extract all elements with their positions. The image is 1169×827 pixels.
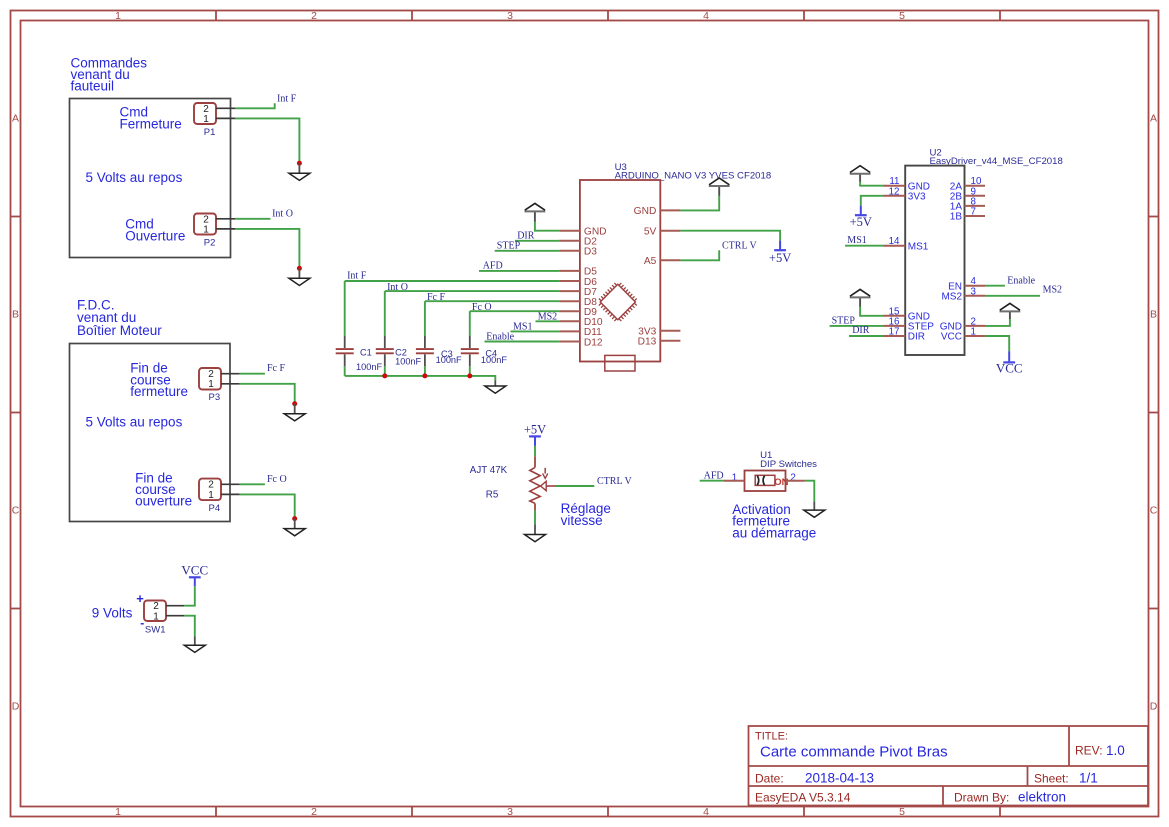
pin D7 U3 left bbox=[559, 287, 597, 298]
svg-text:5: 5 bbox=[899, 10, 905, 22]
pin D11 U3 left bbox=[559, 327, 602, 338]
wire U2 pin 1 VCC to VCC flag bbox=[985, 336, 1009, 351]
svg-text:Sheet:: Sheet: bbox=[1034, 772, 1069, 786]
pin 4 EN U2 right bbox=[948, 276, 985, 292]
svg-text:+: + bbox=[136, 591, 144, 606]
svg-text:A: A bbox=[1150, 113, 1157, 125]
svg-text:MS2: MS2 bbox=[1043, 285, 1062, 296]
wire net DIR to U2 pin 17 bbox=[849, 335, 883, 337]
wire U2 pin 4 EN to net Enable bbox=[985, 285, 1005, 287]
svg-text:elektron: elektron bbox=[1018, 790, 1066, 805]
wire SW1 pin 2 to VCC flag bbox=[184, 586, 195, 606]
U3 USB connector rectangle bbox=[605, 355, 635, 371]
ground R5 bbox=[525, 524, 546, 542]
wire net Fc O from P4 pin 2 bbox=[240, 483, 265, 485]
wire net AFD to U1 pin 1 bbox=[700, 480, 724, 482]
wire net Fc F to U3 D8 bbox=[425, 300, 559, 302]
wire U3 right GND to arrow flag bbox=[680, 196, 719, 211]
svg-text:VCC: VCC bbox=[996, 361, 1023, 376]
wire net MS2 to U3 D10 bbox=[536, 320, 560, 322]
connector P2 bbox=[194, 214, 235, 249]
svg-text:fauteuil: fauteuil bbox=[71, 79, 115, 94]
pin 11 GND U2 left bbox=[884, 176, 931, 192]
pin 8 1A U2 right bbox=[950, 196, 985, 212]
svg-text:CTRL V: CTRL V bbox=[597, 476, 633, 487]
svg-text:3: 3 bbox=[971, 286, 977, 297]
wire net Fc O to U3 D9 bbox=[470, 310, 559, 312]
pin 1 line P2 bbox=[216, 228, 235, 230]
svg-text:Enable: Enable bbox=[1007, 275, 1035, 286]
connector P1 bbox=[194, 103, 235, 138]
annotation block F.D.C. venant du Boitier Moteur bbox=[70, 297, 231, 521]
pin D2 U3 left bbox=[559, 237, 597, 248]
svg-text:D3: D3 bbox=[584, 247, 597, 258]
pin 2 line P1 bbox=[216, 107, 235, 109]
wire C2 bottom to ground bus bbox=[384, 366, 386, 376]
wire U2 pin 3 MS2 to net MS2 bbox=[985, 295, 1040, 297]
svg-text:1: 1 bbox=[208, 490, 214, 501]
svg-text:100nF: 100nF bbox=[395, 357, 421, 367]
svg-text:D13: D13 bbox=[638, 337, 657, 348]
power flag arrow U2 pin 15 bbox=[850, 289, 871, 306]
capacitor C1 bbox=[336, 336, 383, 372]
power flag VCC at U2 bbox=[996, 351, 1023, 375]
svg-text:1B: 1B bbox=[950, 212, 963, 223]
wire ground bus under capacitors bbox=[345, 376, 496, 381]
svg-text:vitesse: vitesse bbox=[561, 513, 603, 528]
svg-text:1: 1 bbox=[115, 10, 121, 22]
wire P2 pin 1 to ground bbox=[235, 229, 299, 268]
wire C3 bottom to ground bus bbox=[424, 366, 426, 376]
svg-text:+5V: +5V bbox=[769, 251, 791, 265]
svg-text:C1: C1 bbox=[360, 348, 372, 358]
wire net Fc F vertical to C3 bbox=[424, 301, 426, 336]
svg-text:Date:: Date: bbox=[755, 772, 784, 786]
svg-text:EasyEDA V5.3.14: EasyEDA V5.3.14 bbox=[755, 791, 851, 805]
pin 1 line U1 bbox=[724, 480, 745, 482]
wire net MS1 to U3 D11 bbox=[511, 330, 560, 332]
wire U3 5V to +5V flag bbox=[680, 231, 780, 241]
wire net Int F to U3 D6 bbox=[345, 280, 560, 282]
pin 17 DIR U2 left bbox=[884, 327, 926, 343]
resistor R5 potentiometer AJT 47K bbox=[470, 456, 555, 510]
svg-text:C: C bbox=[1150, 505, 1158, 517]
title block bbox=[749, 726, 1149, 806]
svg-text:Boîtier Moteur: Boîtier Moteur bbox=[77, 323, 162, 338]
pin D5 U3 left bbox=[559, 267, 597, 278]
svg-text:1: 1 bbox=[208, 379, 214, 390]
svg-text:MS1: MS1 bbox=[847, 235, 866, 246]
svg-text:17: 17 bbox=[889, 327, 900, 338]
svg-text:Fc F: Fc F bbox=[427, 292, 446, 303]
pin 1 line P3 bbox=[221, 383, 240, 385]
power flag +5V at U3 bbox=[769, 241, 791, 265]
svg-text:AJT 47K: AJT 47K bbox=[470, 465, 508, 476]
svg-text:VCC: VCC bbox=[181, 563, 208, 578]
pin 2 line P2 bbox=[216, 218, 235, 220]
svg-text:au démarrage: au démarrage bbox=[732, 525, 816, 540]
svg-text:B: B bbox=[12, 309, 19, 321]
svg-text:GND: GND bbox=[634, 206, 657, 217]
pin 3V3 U3 right bbox=[638, 327, 680, 338]
ground SW1 bbox=[184, 637, 205, 653]
svg-text:Drawn By:: Drawn By: bbox=[954, 791, 1009, 805]
pin D10 U3 left bbox=[559, 317, 603, 328]
U3 chip diamond glyph bbox=[599, 283, 637, 321]
wire U3 left GND to arrow flag bbox=[535, 221, 559, 231]
svg-text:Carte commande Pivot Bras: Carte commande Pivot Bras bbox=[760, 744, 948, 761]
wire P1 pin 1 to ground bbox=[235, 118, 299, 162]
wire U2 pin 2 GND to arrow flag bbox=[985, 319, 1010, 326]
svg-text:B: B bbox=[1150, 309, 1157, 321]
pin D6 U3 left bbox=[559, 277, 597, 288]
svg-text:P1: P1 bbox=[204, 127, 216, 138]
ground P3 bbox=[284, 401, 305, 421]
svg-text:SW1: SW1 bbox=[145, 625, 166, 636]
wire U2 pin 15 GND to arrow flag bbox=[860, 306, 883, 316]
ground P2 bbox=[289, 266, 310, 286]
svg-text:1: 1 bbox=[153, 611, 159, 622]
pin 5V U3 right bbox=[644, 227, 681, 238]
wire U3 A5 to net CTRL V bbox=[680, 250, 719, 260]
svg-text:5 Volts au repos: 5 Volts au repos bbox=[86, 414, 183, 429]
pin 1 line SW1 bbox=[166, 615, 184, 617]
svg-text:TITLE:: TITLE: bbox=[755, 731, 788, 743]
svg-text:-: - bbox=[140, 616, 144, 630]
wire net Fc F from P3 pin 2 bbox=[240, 373, 265, 375]
wire +5V to R5 top bbox=[534, 446, 536, 456]
wire SW1 pin 1 to ground bbox=[184, 616, 195, 637]
svg-text:DIP Switches: DIP Switches bbox=[760, 459, 817, 470]
wire net Enable to U3 D12 bbox=[485, 341, 560, 343]
capacitor C2 bbox=[376, 336, 422, 367]
wire net STEP to U2 pin 16 bbox=[830, 325, 884, 327]
pin D13 U3 right bbox=[638, 337, 681, 348]
svg-text:Fc O: Fc O bbox=[267, 474, 287, 485]
pin 2 line P3 bbox=[221, 373, 240, 375]
pin 1 line P1 bbox=[216, 117, 235, 119]
pin 1 line P4 bbox=[221, 493, 240, 495]
wire net Int F vertical to C1 bbox=[344, 281, 346, 336]
pin 2 GND U2 right bbox=[940, 316, 985, 332]
svg-text:MS1: MS1 bbox=[908, 241, 929, 252]
svg-text:C: C bbox=[12, 505, 20, 517]
pin 16 STEP U2 left bbox=[884, 316, 935, 332]
wire net DIR to U3 D2 bbox=[515, 240, 559, 242]
junction dot C2 bbox=[382, 373, 387, 378]
ground P1 bbox=[289, 161, 310, 181]
svg-text:AFD: AFD bbox=[483, 260, 503, 271]
svg-text:P4: P4 bbox=[209, 503, 221, 514]
pin 2 line U1 bbox=[786, 480, 805, 482]
switch U1 DIP Switches bbox=[724, 450, 818, 491]
pin GND U3 right bbox=[634, 206, 681, 217]
svg-text:Int F: Int F bbox=[277, 94, 297, 105]
wire R5 bottom to ground bbox=[534, 511, 536, 525]
pin A5 U3 right bbox=[644, 256, 681, 267]
svg-text:D: D bbox=[12, 701, 20, 713]
capacitor C4 bbox=[461, 336, 508, 366]
op-amp U2 EasyDriver bbox=[905, 148, 1063, 356]
wire net Int O from P2 pin 2 bbox=[235, 218, 270, 220]
svg-text:P3: P3 bbox=[209, 392, 221, 403]
svg-text:A: A bbox=[12, 113, 19, 125]
op-amp U3 ARDUINO_NANO bbox=[580, 162, 771, 362]
svg-text:Int F: Int F bbox=[347, 270, 367, 281]
svg-text:3: 3 bbox=[507, 10, 513, 22]
annotation Activation fermeture au demarrage bbox=[732, 502, 816, 541]
svg-text:D: D bbox=[1150, 701, 1158, 713]
power flag arrow U2 pin 2 bbox=[1000, 303, 1021, 319]
pin 10 2A U2 right bbox=[950, 176, 985, 192]
svg-text:4: 4 bbox=[703, 10, 709, 22]
svg-text:fermeture: fermeture bbox=[130, 384, 188, 399]
pin GND U3 left bbox=[559, 227, 606, 238]
ground capacitor bus bbox=[485, 381, 506, 394]
wire C4 bottom to ground bus bbox=[469, 366, 471, 376]
svg-text:STEP: STEP bbox=[497, 240, 521, 251]
svg-text:100nF: 100nF bbox=[356, 362, 382, 372]
power flag +5V at U2 bbox=[850, 206, 872, 229]
svg-text:3: 3 bbox=[507, 806, 513, 818]
svg-text:ouverture: ouverture bbox=[135, 494, 192, 509]
wire P4 pin 1 to ground bbox=[240, 494, 295, 518]
svg-text:7: 7 bbox=[971, 207, 976, 218]
ground U1 bbox=[804, 502, 825, 518]
power flag arrow U3 left GND bbox=[525, 203, 546, 221]
pin D3 U3 left bbox=[559, 247, 597, 258]
pin 1 VCC U2 right bbox=[941, 327, 985, 343]
power flag VCC at SW1 bbox=[181, 563, 208, 587]
svg-text:Int O: Int O bbox=[387, 282, 408, 293]
svg-text:+5V: +5V bbox=[524, 423, 546, 437]
svg-text:1.0: 1.0 bbox=[1106, 743, 1125, 758]
svg-text:14: 14 bbox=[889, 236, 900, 247]
svg-text:Enable: Enable bbox=[486, 331, 514, 342]
svg-text:100nF: 100nF bbox=[481, 355, 507, 365]
annotation Reglage vitesse bbox=[561, 501, 611, 528]
wire U1 pin 2 to ground bbox=[805, 481, 814, 502]
svg-text:REV:: REV: bbox=[1075, 744, 1103, 758]
svg-text:100nF: 100nF bbox=[436, 355, 462, 365]
svg-text:9 Volts: 9 Volts bbox=[92, 606, 133, 621]
power flag arrow U3 right GND bbox=[709, 178, 730, 196]
wire net AFD to U3 D5 bbox=[479, 270, 559, 272]
svg-text:2018-04-13: 2018-04-13 bbox=[805, 771, 874, 786]
svg-text:4: 4 bbox=[703, 806, 709, 818]
pin D9 U3 left bbox=[559, 307, 597, 318]
svg-text:Ouverture: Ouverture bbox=[125, 229, 185, 244]
svg-text:5 Volts au repos: 5 Volts au repos bbox=[86, 170, 183, 185]
pin 15 GND U2 left bbox=[884, 306, 931, 322]
power flag +5V at R5 bbox=[524, 423, 546, 446]
connector P3 bbox=[199, 368, 240, 403]
connector P4 bbox=[199, 479, 240, 514]
wire R5 wiper to net CTRL V bbox=[555, 485, 594, 487]
wire net Int O vertical to C2 bbox=[384, 291, 386, 336]
svg-text:MS2: MS2 bbox=[538, 311, 557, 322]
svg-text:D12: D12 bbox=[584, 337, 603, 348]
svg-text:5V: 5V bbox=[644, 227, 657, 238]
svg-text:1: 1 bbox=[203, 114, 209, 125]
svg-text:VCC: VCC bbox=[941, 332, 962, 343]
pin D12 U3 left bbox=[559, 337, 603, 348]
svg-text:1/1: 1/1 bbox=[1079, 771, 1098, 786]
svg-text:Fc O: Fc O bbox=[472, 302, 492, 313]
wire net MS1 to U2 pin 14 bbox=[845, 245, 883, 247]
pin D8 U3 left bbox=[559, 297, 597, 308]
svg-text:2: 2 bbox=[311, 10, 317, 22]
pin 9 2B U2 right bbox=[950, 186, 985, 202]
pin 2 line P4 bbox=[221, 483, 240, 485]
power flag arrow U2 pin 11 bbox=[850, 166, 871, 182]
pin 14 MS1 U2 left bbox=[884, 236, 929, 252]
svg-text:5: 5 bbox=[899, 806, 905, 818]
svg-text:1: 1 bbox=[732, 473, 738, 484]
pin 2 line SW1 bbox=[166, 605, 184, 607]
annotation block Commandes venant du fauteuil bbox=[70, 55, 231, 257]
svg-text:12: 12 bbox=[889, 186, 900, 197]
pin 3 MS2 U2 right bbox=[941, 286, 985, 302]
svg-text:Fermeture: Fermeture bbox=[120, 117, 182, 132]
svg-text:1: 1 bbox=[115, 806, 121, 818]
svg-text:Int O: Int O bbox=[272, 209, 293, 220]
ground P4 bbox=[284, 516, 305, 536]
svg-text:ON: ON bbox=[774, 477, 788, 488]
wire net Fc O vertical to C4 bbox=[469, 311, 471, 336]
svg-text:A5: A5 bbox=[644, 256, 657, 267]
connector SW1 (9 Volts) bbox=[136, 591, 184, 636]
wire net STEP to U3 D3 bbox=[495, 250, 560, 252]
svg-text:P2: P2 bbox=[204, 238, 216, 249]
wire U2 pin 12 3V3 to +5V flag bbox=[861, 196, 884, 206]
pin 7 1B U2 right bbox=[950, 207, 985, 223]
svg-text:3V3: 3V3 bbox=[908, 191, 926, 202]
svg-text:1: 1 bbox=[203, 224, 209, 235]
svg-text:1: 1 bbox=[971, 327, 976, 338]
svg-text:R5: R5 bbox=[486, 490, 499, 501]
svg-text:CTRL V: CTRL V bbox=[722, 241, 758, 252]
svg-text:AFD: AFD bbox=[704, 470, 724, 481]
svg-text:DIR: DIR bbox=[908, 332, 925, 343]
pin 12 3V3 U2 left bbox=[884, 186, 927, 202]
svg-text:DIR: DIR bbox=[852, 325, 870, 336]
svg-text:2: 2 bbox=[790, 473, 796, 484]
wire P3 pin 1 to ground bbox=[240, 384, 295, 403]
svg-text:+5V: +5V bbox=[850, 215, 872, 229]
svg-text:MS2: MS2 bbox=[941, 291, 962, 302]
svg-text:Fc F: Fc F bbox=[267, 363, 286, 374]
junction dot C4 bbox=[467, 373, 472, 378]
wire C1 bottom to ground bus bbox=[344, 366, 346, 376]
capacitor C3 bbox=[416, 336, 462, 366]
svg-text:2: 2 bbox=[311, 806, 317, 818]
wire net Int F from P1 pin 2 bbox=[235, 103, 275, 108]
svg-text:MS1: MS1 bbox=[513, 321, 532, 332]
wire net Int O to U3 D7 bbox=[385, 290, 559, 292]
junction dot C3 bbox=[422, 373, 427, 378]
wire U2 pin 11 GND to arrow flag bbox=[860, 181, 883, 186]
